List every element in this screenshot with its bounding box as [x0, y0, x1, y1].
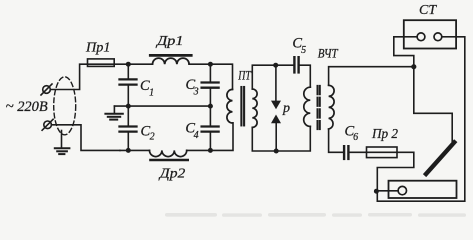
node C4 bottom: [208, 148, 213, 153]
fuse Пр2: [367, 147, 398, 158]
plug connector dashed outline: [54, 77, 76, 135]
node electrode junction: [411, 64, 416, 69]
middle rail wire: [114, 105, 210, 107]
workpiece terminal circle: [398, 186, 406, 194]
transformer ПТ primary winding: [227, 89, 233, 123]
svg-text:С6: С6: [345, 124, 359, 144]
transformer ВЧТ core (dashed): [318, 86, 320, 129]
wire secondary top to C5: [252, 65, 293, 89]
svg-text:р: р: [282, 101, 290, 116]
capacitor C6: [344, 146, 366, 159]
wire fuse2 to bottom junction: [377, 152, 414, 201]
capacitor C3: [202, 64, 219, 106]
plug pin top: [41, 84, 52, 95]
node spark gap bottom: [274, 149, 279, 154]
svg-text:СТ: СТ: [419, 3, 437, 18]
svg-text:ПТ: ПТ: [238, 68, 252, 83]
fuse Пр1: [88, 59, 115, 67]
wire top rail fuse to choke: [114, 63, 152, 65]
svg-text:Др2: Др2: [157, 166, 185, 181]
wire bottom pin to bottom rail: [51, 125, 120, 151]
svg-text:Пр1: Пр1: [85, 40, 111, 55]
wire C5 to ВЧТ primary: [299, 65, 311, 87]
capacitor C4: [202, 106, 219, 150]
transformer ВЧТ primary winding: [304, 87, 311, 126]
electrode (diagonal): [426, 142, 454, 174]
svg-text:С5: С5: [292, 35, 306, 56]
wire electrode feed: [414, 67, 452, 142]
СТ terminal left: [404, 33, 425, 41]
transformer ПТ core: [241, 87, 244, 125]
capacitor C5: [294, 57, 298, 72]
svg-text:ВЧТ: ВЧТ: [318, 46, 339, 60]
wire СТ left terminal to junction: [394, 37, 414, 67]
node C1/C2 mid: [126, 104, 131, 109]
ground (filter mid rail): [105, 106, 122, 120]
svg-text:220В: 220В: [17, 99, 48, 115]
node spark gap top: [273, 63, 278, 68]
transformer ВЧТ secondary winding: [329, 85, 335, 129]
capacitor C2: [120, 106, 137, 150]
svg-text:С4: С4: [185, 121, 198, 141]
wire bottom rail right segment: [187, 123, 233, 151]
svg-text:Пр 2: Пр 2: [371, 127, 398, 142]
wire secondary loop bottom: [252, 126, 310, 151]
wire bottom rail left segment: [120, 149, 150, 151]
node C3 top: [208, 62, 213, 67]
svg-text:С3: С3: [186, 77, 199, 98]
capacitor C1: [120, 64, 137, 106]
wire СТ right terminal to workpiece: [377, 37, 465, 201]
workpiece box: [389, 181, 457, 198]
wire ВЧТ secondary bottom to C6: [329, 129, 343, 152]
node C2 bottom: [126, 148, 131, 153]
СТ terminal right: [434, 33, 456, 41]
wire junction to workpiece terminal: [377, 190, 398, 192]
welding transformer СТ box: [404, 20, 456, 48]
node C1 top: [126, 62, 131, 67]
wire top rail choke to ПТ: [189, 64, 232, 89]
ground (mains): [55, 131, 70, 155]
svg-text:Др1: Др1: [155, 33, 184, 48]
svg-text:~: ~: [6, 99, 14, 115]
spark gap Р: [271, 65, 281, 151]
transformer ПТ secondary winding: [252, 89, 257, 127]
choke Др2: [150, 150, 188, 160]
wire top pin to fuse: [50, 64, 87, 89]
node workpiece junction: [374, 189, 379, 194]
wire ВЧТ secondary top to junction: [329, 67, 414, 86]
choke Др1: [150, 55, 191, 64]
node C3/C4 mid: [208, 104, 213, 109]
plug pin bottom: [42, 119, 53, 130]
svg-text:С1: С1: [140, 78, 154, 98]
svg-text:С2: С2: [141, 124, 155, 143]
